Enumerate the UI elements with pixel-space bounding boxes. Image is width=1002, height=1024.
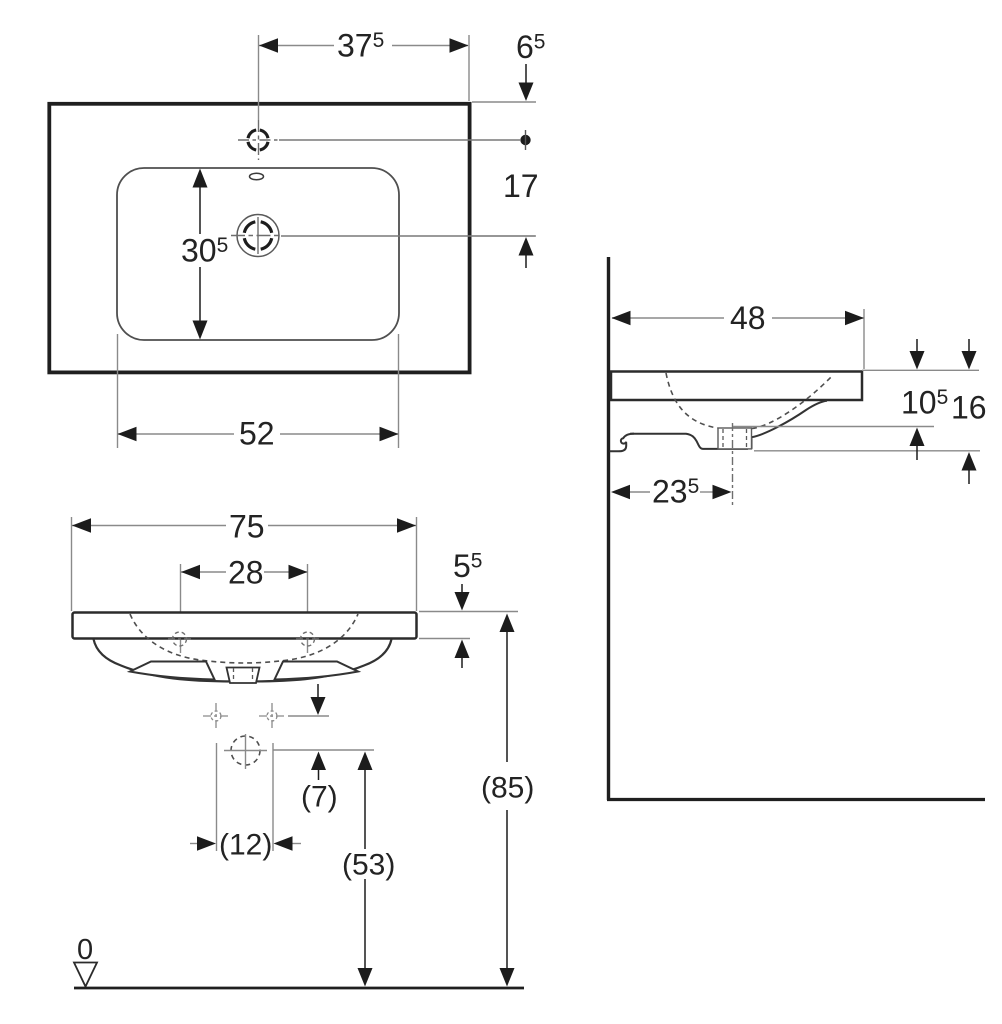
arrow up to drain line (17 dim) — [472, 236, 536, 268]
basin interior (dashed, side) — [666, 373, 833, 429]
wall line — [607, 257, 610, 800]
drain symbol (plan) — [231, 215, 281, 257]
dimension 5.5 (slab thickness) — [419, 548, 518, 668]
fixing hole right — [296, 632, 319, 646]
fixing hole left — [168, 632, 191, 646]
dimension (53) — [342, 752, 395, 987]
svg-text:0: 0 — [77, 934, 93, 966]
dimension (7) — [301, 752, 338, 814]
wall bracket hook (side) — [610, 434, 635, 452]
dimension (12) — [190, 743, 301, 862]
svg-text:(53): (53) — [342, 849, 395, 882]
dimension 23.5 (wall to drain) — [611, 474, 732, 510]
dimension 52 (basin width) — [118, 334, 399, 452]
drain centerline (side) — [732, 423, 734, 505]
washbasin slab (side profile) — [611, 372, 862, 401]
tap hole symbol — [238, 120, 278, 160]
dimension 30.5 (basin depth, vertical) — [181, 169, 228, 340]
overflow slot — [250, 173, 264, 179]
basin interior (dashed, front) — [130, 614, 358, 663]
wall anchor right — [259, 703, 285, 729]
dimension 10.5 arrows — [901, 339, 948, 460]
washbasin outer rim (plan) — [49, 104, 469, 373]
wall anchor left — [203, 703, 229, 729]
svg-text:52: 52 — [239, 416, 275, 452]
svg-text:17: 17 — [503, 168, 539, 204]
siphon drain (front, dashed circle) — [224, 734, 267, 769]
datum 0 — [74, 934, 97, 987]
leader line from drain to the 17 dimension — [281, 235, 535, 237]
washbasin slab (front) — [73, 613, 417, 639]
arrow down to anchor level — [288, 684, 329, 716]
floor line (front view) — [74, 987, 524, 990]
left foot — [130, 662, 215, 680]
drain level reference line — [273, 749, 374, 751]
svg-text:(7): (7) — [301, 781, 338, 814]
reference line: bracket bottom level — [754, 450, 980, 452]
drain channel (front) — [227, 668, 260, 684]
dimension 16 arrows — [951, 339, 987, 484]
dimension 28 (fixing holes distance) — [181, 555, 308, 654]
basin inner bowl (plan, rounded rect) — [117, 168, 399, 340]
dimension 37.5 (tap hole to right edge) — [259, 28, 470, 121]
bowl underside profile (side) — [630, 401, 827, 449]
leader line from tap hole to wall-distance dot — [279, 139, 520, 141]
right foot — [275, 662, 359, 680]
reference line: bowl underside level — [733, 426, 934, 428]
bowl outline (front) — [94, 639, 392, 682]
svg-text:(85): (85) — [481, 772, 534, 805]
svg-text:28: 28 — [228, 555, 264, 591]
drain fitting (side) — [718, 428, 752, 449]
dimension 75 (overall width) — [72, 509, 417, 612]
dimension (85) — [481, 614, 534, 987]
label 17 — [503, 168, 539, 204]
dimension 6.5 (top edge to tap hole) — [472, 29, 545, 102]
top edge extension line to the right — [862, 369, 979, 371]
floor line (side view) — [607, 798, 985, 801]
svg-text:75: 75 — [229, 509, 265, 545]
svg-text:(12): (12) — [219, 829, 272, 862]
dimension 48 (depth) — [612, 300, 865, 369]
svg-text:16: 16 — [951, 390, 987, 426]
svg-text:48: 48 — [730, 300, 766, 336]
dot terminator at tap hole level — [520, 130, 530, 150]
